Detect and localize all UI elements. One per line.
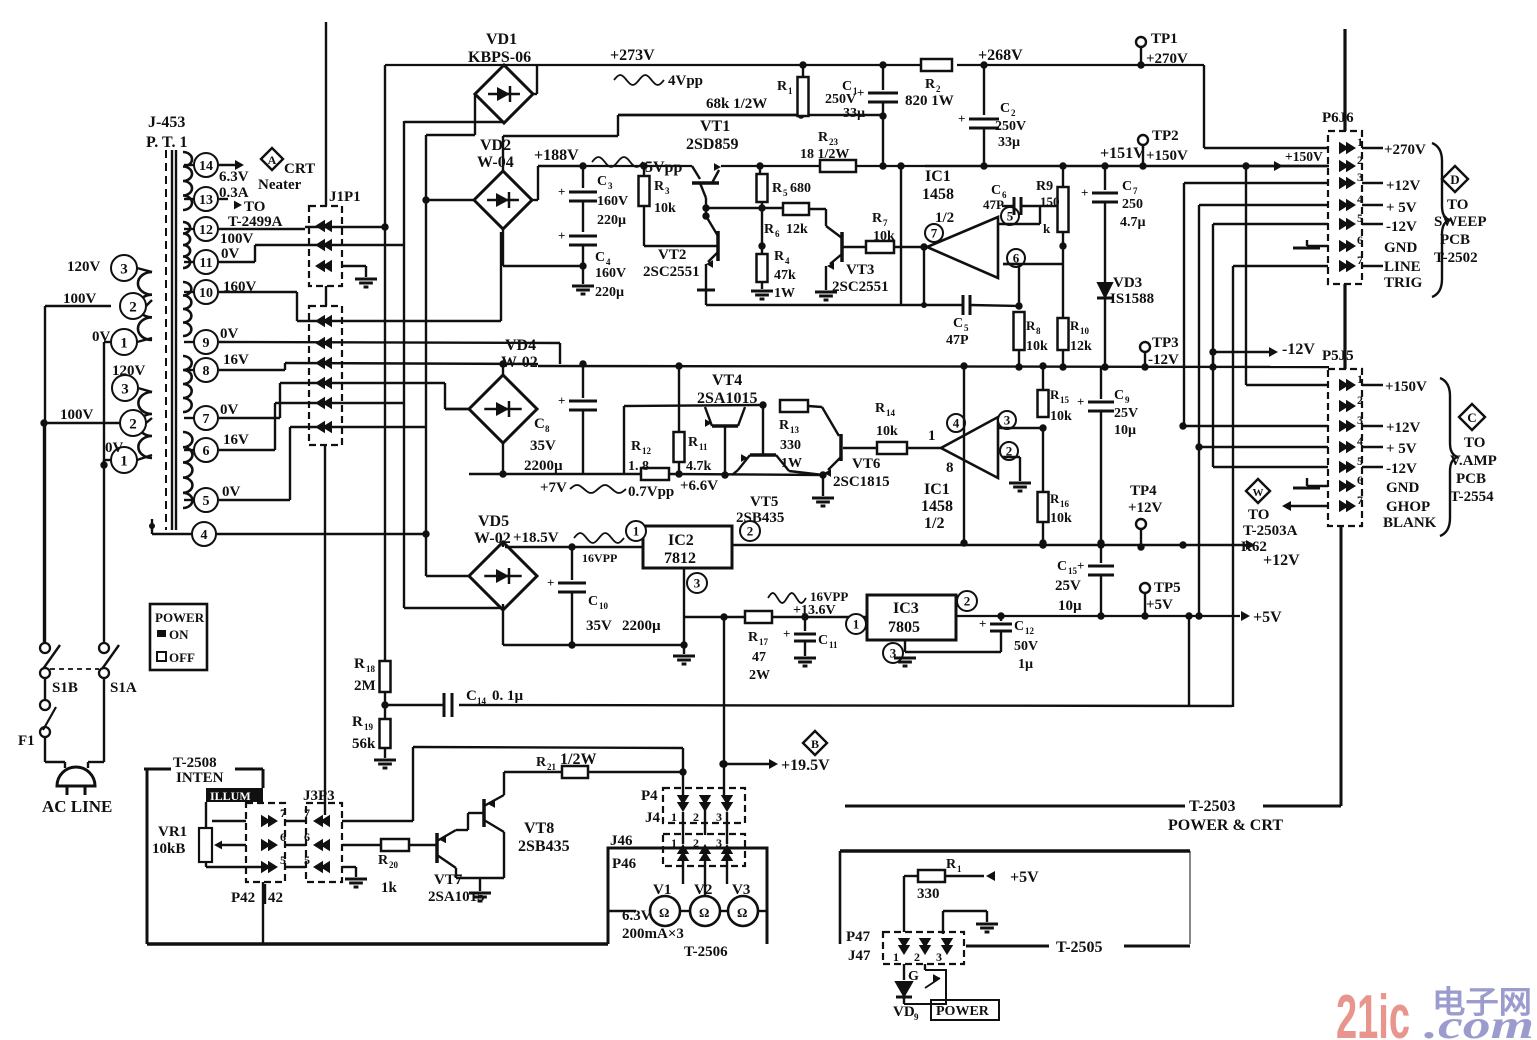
- connector P47 pins: [893, 938, 953, 964]
- resistor R21 1/2W: [536, 751, 596, 778]
- connector P4/J4 box: [663, 788, 745, 823]
- svg-text:820 1W: 820 1W: [905, 93, 954, 109]
- svg-text:T-2508: T-2508: [173, 755, 217, 771]
- svg-text:23: 23: [829, 137, 839, 147]
- svg-text:VD3: VD3: [1113, 275, 1142, 291]
- svg-text:10µ: 10µ: [1058, 598, 1082, 614]
- wire IC1 power column: [901, 166, 925, 305]
- svg-text:2200µ: 2200µ: [524, 458, 563, 474]
- svg-text:J-453: J-453: [148, 114, 185, 131]
- pin 1 J1P1 upper: [315, 220, 332, 232]
- LED VD9 power indicator: [893, 964, 946, 1022]
- wire lamp row: [608, 910, 767, 912]
- svg-text:10: 10: [199, 286, 213, 301]
- pin 3 J1P1 upper: [315, 260, 332, 272]
- svg-text:G: G: [908, 969, 919, 984]
- wire VT2 emitter feedback line: [706, 304, 963, 306]
- pin 1 P6J6: [1339, 135, 1363, 154]
- wire c6 row: [219, 403, 404, 450]
- junction R3 top: [640, 162, 647, 169]
- junction C12 top: [997, 612, 1004, 619]
- junction pin3 node: [1039, 424, 1046, 431]
- pin 4 P6J6: [1339, 192, 1363, 211]
- svg-text:3: 3: [694, 576, 701, 591]
- svg-text:4.7µ: 4.7µ: [1120, 215, 1146, 230]
- wire pin7 row: [285, 747, 413, 821]
- junction VT5 base node: [759, 401, 766, 408]
- svg-text:7: 7: [1133, 186, 1138, 196]
- svg-text:+150V: +150V: [1385, 379, 1427, 395]
- ground VT7/VT8: [469, 893, 491, 901]
- svg-text:VR1: VR1: [158, 824, 187, 840]
- pin 3 P5J5: [1339, 413, 1363, 432]
- ground IC3: [894, 658, 916, 666]
- wire VD5 top to IC2: [503, 542, 572, 547]
- capacitor C12: [979, 616, 1038, 672]
- svg-text:2SC2551: 2SC2551: [832, 279, 889, 295]
- capacitor C15: [1055, 545, 1114, 620]
- wire P5J5 pin1 +150V: [1246, 166, 1427, 395]
- svg-text:1: 1: [928, 428, 936, 444]
- wire R20 to VT7: [409, 844, 437, 846]
- svg-text:0V: 0V: [222, 484, 241, 500]
- svg-text:T-2503: T-2503: [1189, 798, 1236, 815]
- wire c12 to pin1 J1P1: [219, 226, 385, 229]
- svg-text:0V: 0V: [105, 440, 124, 456]
- svg-text:2: 2: [1357, 393, 1363, 407]
- pin 5 J1P1 lower: [315, 337, 332, 349]
- svg-text:0. 1µ: 0. 1µ: [492, 688, 524, 704]
- svg-text:IC2: IC2: [668, 532, 694, 549]
- svg-text:P5J5: P5J5: [1322, 348, 1354, 364]
- svg-text:3: 3: [1004, 413, 1011, 428]
- svg-text:+13.6V: +13.6V: [793, 603, 836, 618]
- connector J1P1 box upper: [309, 206, 342, 286]
- wire P6J6 pin4 +5V: [1199, 200, 1417, 216]
- svg-text:SWEEP: SWEEP: [1434, 214, 1487, 230]
- wire 100V group2 tap: [44, 423, 120, 646]
- svg-text:VD5: VD5: [478, 513, 509, 530]
- svg-text:0V: 0V: [220, 326, 239, 342]
- svg-text:8: 8: [1036, 326, 1041, 336]
- svg-text:IC1: IC1: [925, 168, 951, 185]
- connector J1P1 box lower: [309, 306, 342, 445]
- svg-text:68k 1/2W: 68k 1/2W: [706, 96, 767, 112]
- wire bottom box left: [839, 851, 842, 944]
- ripple 4Vpp: [614, 73, 703, 89]
- wire pin5 node to R9: [1040, 205, 1063, 207]
- svg-text:VD: VD: [893, 1004, 915, 1020]
- svg-text:TP4: TP4: [1130, 483, 1157, 499]
- svg-text:100V: 100V: [63, 291, 97, 307]
- svg-text:4: 4: [785, 256, 790, 266]
- POWER label box: [931, 1000, 999, 1020]
- svg-text:C: C: [1114, 388, 1124, 403]
- svg-text:47P: 47P: [946, 333, 969, 348]
- pin 6 P6J6: [1339, 233, 1363, 252]
- svg-text:J3P3: J3P3: [303, 788, 335, 804]
- svg-text:11: 11: [199, 256, 212, 271]
- wire P6J6 pin1 out: [1362, 142, 1426, 158]
- svg-text:+12V: +12V: [1128, 500, 1163, 516]
- svg-text:250V: 250V: [825, 92, 856, 107]
- svg-text:10k: 10k: [876, 424, 898, 439]
- junction R9 bottom: [1059, 242, 1066, 249]
- text 16VPP small: [582, 551, 617, 565]
- svg-text:OFF: OFF: [169, 650, 195, 665]
- junction C4 bottom wire: [579, 262, 586, 269]
- wire T-2505 line: [966, 939, 1190, 956]
- capacitor C5 47P: [946, 295, 1019, 348]
- svg-text:18 1/2W: 18 1/2W: [800, 147, 849, 162]
- svg-text:5: 5: [203, 494, 210, 509]
- svg-text:1: 1: [633, 524, 640, 539]
- svg-text:R: R: [774, 249, 785, 264]
- bridge rectifier VD2: [474, 137, 532, 229]
- primary winding stubs: [137, 268, 152, 460]
- wire between J1P1 boxes: [325, 286, 327, 306]
- wire VD2 right to +188V rail: [532, 166, 583, 200]
- resistor R12 1.8: [628, 439, 669, 480]
- wire IC2 gnd pin: [683, 568, 685, 645]
- connector P42 pins: [261, 806, 286, 873]
- svg-text:6: 6: [1357, 473, 1363, 487]
- arrow TO T-2499A: [219, 199, 242, 209]
- junctions +5V rail: [1141, 612, 1202, 619]
- node +151V label: [1100, 145, 1145, 162]
- svg-text:Ω: Ω: [699, 905, 709, 920]
- svg-text:0V: 0V: [220, 402, 239, 418]
- ground R19: [374, 760, 396, 768]
- svg-text:J47: J47: [848, 948, 871, 964]
- resistor R8 10k: [1014, 312, 1049, 367]
- wire bottom box right: [1189, 851, 1191, 944]
- wire +273V rail: [385, 65, 1329, 227]
- svg-text:330: 330: [917, 886, 940, 902]
- svg-text:160V: 160V: [597, 194, 628, 209]
- ripple 16VPP +13.6V: [768, 589, 848, 618]
- ILLUM box: [206, 788, 263, 803]
- svg-text:C: C: [1467, 410, 1476, 425]
- ground P6J6 pin6: [1293, 240, 1418, 256]
- diode VD3 IS1588: [1081, 162, 1154, 367]
- svg-text:POWER: POWER: [936, 1004, 990, 1019]
- svg-text:TP2: TP2: [1152, 128, 1179, 144]
- node +18.5V label: [513, 530, 624, 546]
- wire C1 column: [857, 61, 898, 166]
- AC plug symbol: [57, 767, 95, 795]
- svg-text:A: A: [268, 153, 277, 167]
- node +188V label: [534, 147, 579, 164]
- wire VD5 bottom line: [503, 610, 688, 649]
- svg-text:R: R: [378, 853, 389, 868]
- text TO V.AMP PCB T-2554: [1450, 435, 1497, 505]
- transformer primary winding 2: [138, 392, 152, 458]
- fuse F1: [18, 678, 56, 749]
- svg-text:25V: 25V: [1114, 406, 1138, 421]
- svg-text:5: 5: [964, 323, 969, 333]
- junction IC1 input: [920, 243, 927, 250]
- resistor R15 10k: [1038, 366, 1073, 424]
- svg-text:k: k: [1043, 221, 1051, 236]
- ground IC2: [673, 645, 695, 664]
- svg-text:R: R: [536, 755, 547, 770]
- node +273V label: [610, 47, 655, 64]
- svg-text:+: +: [783, 626, 790, 641]
- capacitor C8: [524, 360, 597, 474]
- node +268V label: [978, 47, 1023, 64]
- wire IC3 out: [956, 609, 1282, 626]
- svg-text:+6.6V: +6.6V: [680, 478, 718, 494]
- connector J46 pins: [671, 836, 733, 861]
- ground R4: [751, 291, 773, 299]
- svg-text:V.AMP: V.AMP: [1450, 453, 1497, 469]
- svg-text:2: 2: [693, 810, 699, 824]
- transformer secondary windings: [183, 152, 192, 508]
- svg-text:16V: 16V: [223, 432, 249, 448]
- svg-text:VT3: VT3: [846, 262, 874, 278]
- junction C2 bottom: [980, 162, 987, 169]
- connector J1P1 label: [329, 189, 361, 205]
- resistor R19 56k: [352, 714, 391, 758]
- wire bottom box top: [840, 849, 1190, 853]
- svg-text:GHOP: GHOP: [1386, 499, 1430, 515]
- svg-text:C: C: [466, 688, 477, 704]
- svg-text:+12V: +12V: [1386, 178, 1421, 194]
- svg-text:IC3: IC3: [893, 600, 919, 617]
- wire VT7/VT8 emitter-collector join: [456, 832, 504, 891]
- svg-text:3: 3: [120, 261, 128, 277]
- transistor VT6 2SC1815: [822, 407, 890, 490]
- svg-text:C: C: [595, 250, 605, 265]
- svg-text:1458: 1458: [922, 186, 954, 203]
- svg-text:C: C: [588, 594, 598, 609]
- capacitor C11: [783, 617, 838, 666]
- wire VT1 collector to R6: [706, 207, 783, 209]
- wire P4 pin2: [704, 797, 706, 835]
- svg-text:GND: GND: [1384, 240, 1418, 256]
- text CRT Neater: [258, 161, 315, 193]
- pin 7 P6J6: [1339, 253, 1363, 272]
- svg-text:0.7Vpp: 0.7Vpp: [628, 484, 674, 500]
- capacitor C14 0.1u: [385, 688, 1232, 717]
- wire J46 to lamps: [683, 812, 727, 911]
- connector J3P3 pins: [304, 806, 330, 873]
- svg-text:6: 6: [280, 830, 286, 844]
- svg-text:C: C: [953, 316, 963, 331]
- svg-text:W-02: W-02: [474, 530, 511, 547]
- svg-text:8: 8: [203, 364, 210, 379]
- svg-text:C: C: [1000, 101, 1010, 116]
- text TO SWEEP PCB T-2502: [1434, 197, 1487, 266]
- svg-text:3: 3: [936, 950, 942, 964]
- diamond W symbol: [1246, 479, 1270, 503]
- wire R21 to P4: [588, 748, 687, 797]
- wire c10 160V to pin4 row: [219, 292, 501, 321]
- wire +188V rail: [583, 165, 692, 167]
- svg-text:T-2505: T-2505: [1056, 939, 1103, 956]
- resistor R2 820 1W: [905, 59, 954, 109]
- wire c4 terminal: [152, 519, 430, 538]
- resistor R23 18 1/2W: [800, 130, 856, 172]
- svg-text:C: C: [1122, 179, 1132, 194]
- wire R23 right: [856, 162, 925, 169]
- wire CRT heater vertical: [325, 22, 327, 206]
- svg-text:R: R: [875, 401, 886, 416]
- svg-text:2: 2: [747, 524, 754, 539]
- capacitor C6 47P: [983, 183, 1040, 215]
- op-amp IC1 1/2 (upper): [922, 168, 1025, 278]
- wire VT1 collector column: [702, 198, 709, 220]
- svg-text:10k: 10k: [1050, 409, 1072, 424]
- junction feedback/C5: [921, 302, 927, 308]
- svg-text:47: 47: [752, 650, 766, 665]
- svg-text:T-2506: T-2506: [684, 944, 728, 960]
- svg-text:TRIG: TRIG: [1384, 275, 1423, 291]
- connector P4 pins: [671, 795, 733, 824]
- IC2 7812 box: [626, 521, 760, 593]
- POWER ON/OFF legend box: [150, 604, 207, 670]
- wire J1P1 to J3P3 vertical: [324, 445, 326, 815]
- svg-text:33µ: 33µ: [998, 135, 1020, 150]
- svg-text:+12V: +12V: [1263, 552, 1300, 569]
- svg-text:2: 2: [129, 416, 137, 432]
- diamond C symbol: [1459, 404, 1485, 430]
- diamond A CRT symbol: [261, 148, 283, 170]
- wire y115 node line: [618, 111, 883, 118]
- svg-text:P. T. 1: P. T. 1: [146, 134, 188, 151]
- svg-text:33µ: 33µ: [843, 106, 865, 121]
- junction 100V: [40, 419, 47, 426]
- svg-text:2: 2: [129, 299, 137, 315]
- svg-text:IC1: IC1: [924, 481, 950, 498]
- svg-text:50V: 50V: [1014, 639, 1038, 654]
- svg-text:+7V: +7V: [540, 480, 567, 496]
- svg-text:14: 14: [886, 408, 896, 418]
- brace to sweep pcb: [1432, 143, 1450, 297]
- test point TP1: [1136, 31, 1188, 69]
- svg-text:GND: GND: [1386, 480, 1420, 496]
- svg-text:25V: 25V: [1055, 578, 1081, 594]
- svg-text:.com: .com: [1424, 1002, 1534, 1040]
- transistor VT5 2SB435: [732, 405, 823, 526]
- wire long row y746: [413, 746, 683, 748]
- pin 7 J1P1 lower: [315, 377, 332, 389]
- bridge rectifier VD1: [468, 31, 533, 123]
- svg-text:C: C: [818, 633, 828, 648]
- svg-text:12k: 12k: [1070, 339, 1092, 354]
- svg-text:R: R: [779, 418, 790, 433]
- wire P6J6 pin5 -12V: [1213, 219, 1417, 235]
- svg-text:2: 2: [1357, 153, 1363, 167]
- connector J46/P46 labels: [610, 833, 637, 872]
- lamp box: [608, 848, 767, 944]
- connector J3P3 box: [306, 803, 342, 882]
- svg-text:5Vpp: 5Vpp: [645, 159, 682, 176]
- svg-text:VT4: VT4: [712, 372, 742, 389]
- svg-text:P47: P47: [846, 929, 871, 945]
- transformer primary winding 1: [138, 272, 152, 340]
- wire IC1 power column lower: [960, 366, 967, 547]
- svg-text:R: R: [748, 630, 759, 645]
- lamp V2: [690, 882, 720, 926]
- svg-text:R9: R9: [1036, 179, 1053, 194]
- resistor R10 12k: [1058, 264, 1093, 367]
- arrow +19.5V: [723, 757, 830, 774]
- junction core bottom: [149, 523, 155, 529]
- resistor R16 10k: [1038, 428, 1073, 547]
- svg-text:+19.5V: +19.5V: [781, 757, 830, 774]
- svg-text:12: 12: [642, 446, 652, 456]
- svg-text:21ic: 21ic: [1336, 983, 1410, 1040]
- pin 1 P5J5: [1339, 372, 1363, 391]
- svg-text:1k: 1k: [381, 880, 398, 896]
- svg-text:TP3: TP3: [1152, 335, 1179, 351]
- ground near P47: [943, 911, 998, 934]
- test point TP5: [1140, 580, 1181, 616]
- svg-text:3: 3: [665, 186, 670, 196]
- svg-text:P46: P46: [612, 856, 637, 872]
- svg-text:13: 13: [790, 425, 800, 435]
- svg-text:Neater: Neater: [258, 177, 302, 193]
- junction pin1/x385: [381, 223, 388, 230]
- svg-text:TO: TO: [1447, 197, 1468, 213]
- wire IC1 output feedback: [923, 247, 925, 305]
- svg-text:4: 4: [953, 416, 960, 431]
- svg-text:T-2502: T-2502: [1434, 250, 1478, 266]
- lamp V1: [650, 882, 680, 926]
- svg-text:R: R: [818, 130, 829, 145]
- wire -12V rail: [538, 366, 1329, 367]
- svg-text:+: +: [547, 575, 554, 590]
- svg-text:2SD859: 2SD859: [686, 136, 738, 153]
- svg-text:16: 16: [1060, 499, 1070, 509]
- svg-text:7: 7: [280, 806, 286, 820]
- arrow -12V branch: [1209, 341, 1315, 367]
- wire 100V tap to S1B: [45, 306, 111, 646]
- wire +7V rail right: [669, 470, 823, 477]
- transistor VT4 2SA1015: [697, 372, 757, 475]
- junction VT2 base node: [758, 242, 765, 249]
- svg-text:160V: 160V: [595, 266, 626, 281]
- wire +151V rail: [925, 165, 1329, 167]
- svg-text:R: R: [631, 439, 642, 454]
- vertical feed -12V P6J6: [1212, 224, 1214, 467]
- svg-text:15: 15: [1068, 566, 1078, 576]
- svg-text:14: 14: [477, 696, 487, 706]
- svg-text:1: 1: [671, 810, 677, 824]
- svg-text:8: 8: [545, 424, 550, 434]
- wire VD2 top stub: [503, 115, 797, 171]
- svg-text:10k: 10k: [654, 201, 676, 216]
- svg-text:B: B: [811, 737, 819, 751]
- svg-text:CRT: CRT: [284, 161, 315, 177]
- svg-text:VD4: VD4: [505, 337, 536, 354]
- potentiometer VR1 10kB: [152, 802, 262, 867]
- svg-text:17: 17: [759, 637, 769, 647]
- resistor R20 1k: [378, 839, 409, 896]
- svg-text:+270V: +270V: [1146, 51, 1188, 67]
- svg-text:220µ: 220µ: [595, 285, 624, 300]
- svg-text:1: 1: [788, 86, 793, 96]
- capacitor C10: [547, 547, 661, 645]
- svg-text:+5V: +5V: [1253, 609, 1282, 626]
- svg-text:VD2: VD2: [480, 137, 511, 154]
- wire S1B-S1A dashed: [50, 668, 99, 670]
- wire IC1 lower pin3: [998, 417, 1043, 428]
- svg-text:5: 5: [280, 853, 286, 867]
- svg-text:-12V: -12V: [1148, 352, 1179, 368]
